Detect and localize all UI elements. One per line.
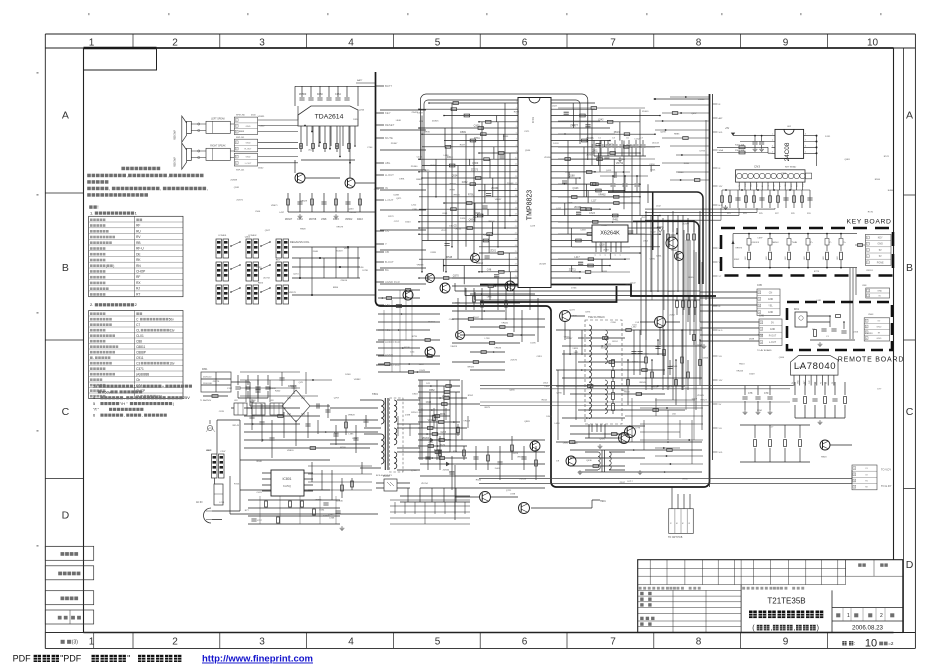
svg-text:,: , xyxy=(160,186,161,191)
svg-text:VR597: VR597 xyxy=(495,199,502,201)
svg-text:10: 10 xyxy=(515,157,517,159)
svg-text:C991: C991 xyxy=(428,442,434,444)
svg-text:Q969: Q969 xyxy=(328,514,334,516)
svg-text:L432: L432 xyxy=(632,327,638,329)
svg-text:L102: L102 xyxy=(656,206,662,208)
svg-text:D543: D543 xyxy=(405,222,411,224)
svg-text:+5V: +5V xyxy=(725,128,730,130)
svg-text:ZD588: ZD588 xyxy=(230,180,237,182)
svg-text:Q536: Q536 xyxy=(525,150,531,152)
svg-text:L814: L814 xyxy=(543,383,549,385)
svg-text:11: 11 xyxy=(515,164,517,166)
svg-text:D193: D193 xyxy=(867,333,873,335)
svg-text:R486: R486 xyxy=(888,190,894,192)
svg-text:L848: L848 xyxy=(396,120,402,122)
svg-text:C504: C504 xyxy=(255,211,261,213)
svg-text:L217: L217 xyxy=(574,256,580,259)
svg-text:R890: R890 xyxy=(333,287,339,289)
svg-text:VR655: VR655 xyxy=(453,194,460,196)
svg-text:P8: P8 xyxy=(832,382,834,384)
svg-text:ZD575: ZD575 xyxy=(510,360,517,362)
svg-text:DEGAUSS COIL: DEGAUSS COIL xyxy=(290,240,310,244)
svg-text:25V: 25V xyxy=(183,395,190,400)
svg-text:P2: P2 xyxy=(768,185,770,187)
svg-text:24C08: 24C08 xyxy=(784,142,791,161)
svg-text:VR671: VR671 xyxy=(271,205,278,207)
svg-text:R355: R355 xyxy=(688,277,694,279)
svg-text:ZD791: ZD791 xyxy=(445,440,452,442)
svg-text:VR462: VR462 xyxy=(598,194,606,197)
svg-text:ZD708: ZD708 xyxy=(309,218,317,221)
svg-text:R571: R571 xyxy=(884,156,890,158)
svg-text:D717: D717 xyxy=(628,481,634,483)
svg-text:26: 26 xyxy=(515,257,517,259)
svg-text:R352: R352 xyxy=(734,259,740,261)
svg-text:C88: C88 xyxy=(136,339,142,343)
svg-text:KEY BOAD: KEY BOAD xyxy=(785,166,797,169)
svg-text:ZD732: ZD732 xyxy=(263,277,270,279)
svg-text:VR973: VR973 xyxy=(735,247,742,249)
svg-text:6: 6 xyxy=(522,37,528,48)
svg-text:H.D: H.D xyxy=(719,330,723,332)
svg-text:NF: NF xyxy=(815,382,817,384)
svg-text:SPKT-N6: SPKT-N6 xyxy=(236,115,246,117)
svg-text:Q263: Q263 xyxy=(348,209,354,211)
svg-text:R109: R109 xyxy=(404,347,410,349)
svg-text:5: 5 xyxy=(93,401,95,406)
svg-text:Q591: Q591 xyxy=(234,187,240,189)
svg-text:IN: IN xyxy=(385,186,388,190)
svg-text:L938: L938 xyxy=(510,493,516,495)
svg-text:VR441: VR441 xyxy=(501,323,508,325)
svg-text:R625: R625 xyxy=(424,170,430,172)
svg-text:R434: R434 xyxy=(542,399,548,401)
svg-text:C888P: C888P xyxy=(136,350,146,354)
svg-text:L-OUT: L-OUT xyxy=(245,163,252,165)
svg-text:8: 8 xyxy=(696,37,702,48)
svg-text:9: 9 xyxy=(783,637,789,648)
svg-text:R-OUT: R-OUT xyxy=(245,149,253,151)
svg-text:D320: D320 xyxy=(460,218,466,220)
svg-text:16v: 16v xyxy=(169,361,175,365)
svg-text:L437: L437 xyxy=(279,212,285,214)
svg-text:C819: C819 xyxy=(537,356,543,358)
svg-text:C207: C207 xyxy=(220,451,226,453)
svg-text:D163: D163 xyxy=(323,515,329,517)
svg-text:ZD860: ZD860 xyxy=(299,93,307,96)
svg-text:D223: D223 xyxy=(513,453,519,455)
svg-text:C617: C617 xyxy=(667,387,673,389)
svg-text:R255: R255 xyxy=(758,335,764,337)
svg-text:D834: D834 xyxy=(632,362,638,364)
svg-text:CL01: CL01 xyxy=(136,334,144,338)
svg-text:"/t ": "/t " xyxy=(93,407,100,412)
svg-text:D933: D933 xyxy=(503,136,509,138)
svg-text:R596: R596 xyxy=(875,179,881,181)
svg-text:GND: GND xyxy=(877,291,882,293)
svg-text:Q252: Q252 xyxy=(449,471,455,473)
svg-text:C431: C431 xyxy=(257,492,263,494)
svg-text:SSP-101: SSP-101 xyxy=(236,137,245,139)
svg-text:4: 4 xyxy=(772,151,773,153)
svg-text:PONE: PONE xyxy=(877,261,884,264)
svg-text:28: 28 xyxy=(515,270,517,272)
svg-text:ZD907: ZD907 xyxy=(391,143,398,145)
svg-text:R548: R548 xyxy=(446,256,452,259)
svg-text:): ) xyxy=(817,625,819,632)
svg-text:3: 3 xyxy=(772,145,773,147)
svg-text:GND: GND xyxy=(770,328,776,331)
svg-text:L542: L542 xyxy=(598,119,604,122)
svg-text:V.D: V.D xyxy=(719,428,723,430)
svg-text:B: B xyxy=(906,262,913,274)
svg-text:R-OUT: R-OUT xyxy=(769,335,777,338)
svg-text:ZD468: ZD468 xyxy=(491,187,499,190)
svg-text:MENU: MENU xyxy=(773,242,779,244)
svg-text:CN8: CN8 xyxy=(862,285,867,287)
svg-text:RB: RB xyxy=(136,241,140,245)
svg-text:6: 6 xyxy=(93,413,95,418)
svg-text:22: 22 xyxy=(515,232,517,234)
svg-text:VR868: VR868 xyxy=(417,264,424,266)
svg-text:Q721: Q721 xyxy=(506,490,512,492)
svg-text:TO H.DY: TO H.DY xyxy=(881,484,892,488)
svg-text:RIGHT SPEAK: RIGHT SPEAK xyxy=(210,145,226,148)
svg-text:ZD302: ZD302 xyxy=(586,155,593,157)
svg-text:C661: C661 xyxy=(442,213,448,215)
svg-text:21: 21 xyxy=(515,226,517,228)
svg-text:P7: P7 xyxy=(826,382,828,384)
svg-text:5V: 5V xyxy=(879,249,882,252)
svg-text:SCL: SCL xyxy=(757,184,759,187)
svg-text:L738: L738 xyxy=(485,338,491,340)
svg-text:ZD421: ZD421 xyxy=(412,112,419,114)
svg-text:L-OUT: L-OUT xyxy=(385,198,394,202)
svg-text:3: 3 xyxy=(516,114,517,116)
svg-text:ZD614: ZD614 xyxy=(341,280,348,282)
svg-text:X6264K: X6264K xyxy=(600,231,620,237)
svg-text:R105 10K: R105 10K xyxy=(735,145,745,147)
svg-text:TMP8823: TMP8823 xyxy=(527,190,534,220)
svg-text:CN3: CN3 xyxy=(754,165,760,169)
svg-text:D209: D209 xyxy=(692,399,698,401)
svg-text:C422: C422 xyxy=(259,125,265,127)
svg-text:GND: GND xyxy=(246,126,251,128)
svg-text:AFT: AFT xyxy=(719,117,724,120)
svg-text:R795: R795 xyxy=(412,336,418,338)
svg-text:T801: T801 xyxy=(372,392,378,396)
svg-text:D343: D343 xyxy=(420,370,426,372)
svg-text:GND: GND xyxy=(246,157,251,159)
svg-text:R908: R908 xyxy=(300,228,306,230)
svg-text:VR533: VR533 xyxy=(455,228,462,230)
svg-text:R885: R885 xyxy=(674,134,680,136)
svg-text:ZD607: ZD607 xyxy=(473,317,480,319)
svg-text:Q188: Q188 xyxy=(569,175,576,178)
svg-text:L117: L117 xyxy=(591,200,597,203)
svg-text:D288: D288 xyxy=(394,195,400,197)
svg-text:GND: GND xyxy=(878,243,884,246)
svg-text:R731: R731 xyxy=(474,137,480,140)
svg-text:18: 18 xyxy=(515,207,517,209)
svg-text:C723: C723 xyxy=(589,212,595,215)
svg-text:VR752: VR752 xyxy=(616,162,624,165)
svg-text:1.: 1. xyxy=(90,211,93,216)
svg-text:D195: D195 xyxy=(530,342,536,344)
svg-text:D: D xyxy=(62,510,70,522)
svg-text:CN5: CN5 xyxy=(757,284,762,287)
svg-text:A: A xyxy=(62,110,69,122)
svg-text:C909: C909 xyxy=(571,316,577,318)
svg-text:VR278: VR278 xyxy=(289,292,296,294)
svg-text:H901: H901 xyxy=(600,500,606,503)
svg-text:R123: R123 xyxy=(333,218,339,221)
svg-text:C697: C697 xyxy=(757,238,763,240)
svg-text:ZD668: ZD668 xyxy=(350,212,357,214)
svg-text:C152: C152 xyxy=(634,139,640,141)
svg-text:Q413: Q413 xyxy=(606,170,612,172)
svg-text:(A)88888: (A)88888 xyxy=(136,372,149,376)
svg-text:R775: R775 xyxy=(814,271,820,273)
svg-text:VR35: VR35 xyxy=(424,132,430,134)
svg-text:17: 17 xyxy=(515,201,517,203)
svg-text:Q534: Q534 xyxy=(452,175,459,178)
svg-text:Q983: Q983 xyxy=(524,421,530,423)
svg-text:T902 FLYBACK: T902 FLYBACK xyxy=(588,316,605,319)
svg-text:CON801: CON801 xyxy=(218,235,227,237)
svg-text:R460: R460 xyxy=(275,391,281,393)
svg-text:R998: R998 xyxy=(450,189,456,191)
svg-text:D367: D367 xyxy=(630,145,636,147)
svg-text:Q293: Q293 xyxy=(660,132,666,134)
svg-text:Q710: Q710 xyxy=(411,470,417,472)
svg-text:VR280: VR280 xyxy=(797,367,804,369)
svg-text:10: 10 xyxy=(867,37,879,48)
svg-text:L598: L598 xyxy=(321,218,327,221)
svg-text:7: 7 xyxy=(610,637,616,648)
svg-text:VR410: VR410 xyxy=(476,262,484,265)
svg-text:L228: L228 xyxy=(530,226,536,228)
svg-text:4: 4 xyxy=(348,637,354,648)
svg-text:AUDIO IN-R: AUDIO IN-R xyxy=(385,340,400,344)
svg-text:R889: R889 xyxy=(416,179,422,181)
svg-text:A: A xyxy=(906,110,913,122)
svg-text:2: 2 xyxy=(880,613,883,619)
svg-text:5: 5 xyxy=(516,126,517,128)
svg-text:VR527: VR527 xyxy=(700,400,707,402)
svg-text:L868: L868 xyxy=(329,518,335,520)
svg-text:10: 10 xyxy=(865,638,877,650)
svg-text:L-OUT: L-OUT xyxy=(769,341,777,344)
svg-text:H.D: H.D xyxy=(719,205,723,207)
svg-text:KA5Q: KA5Q xyxy=(283,484,292,488)
svg-text:6: 6 xyxy=(522,637,528,648)
svg-text:VR86: VR86 xyxy=(682,478,688,480)
svg-text:C48: C48 xyxy=(487,269,492,272)
svg-text:Q757: Q757 xyxy=(334,398,340,400)
svg-text:C943: C943 xyxy=(703,358,709,360)
svg-text:12V: 12V xyxy=(719,380,723,382)
svg-text:RT: RT xyxy=(136,293,140,297)
svg-text:ZD174: ZD174 xyxy=(428,322,435,324)
svg-text:24: 24 xyxy=(515,245,517,247)
svg-text:RF: RF xyxy=(136,224,140,228)
svg-text:8Ω/3W: 8Ω/3W xyxy=(173,157,177,166)
svg-text:ZD685: ZD685 xyxy=(697,395,704,397)
svg-text:ZD162: ZD162 xyxy=(442,396,450,398)
svg-text:DE: DE xyxy=(136,252,140,256)
svg-text:C8811: C8811 xyxy=(136,345,145,349)
svg-text:1/8w: 1/8w xyxy=(134,384,142,389)
svg-text:Q790: Q790 xyxy=(556,393,562,395)
svg-text:12V: 12V xyxy=(719,186,723,188)
svg-text:PDF: PDF xyxy=(13,654,32,664)
svg-text:CN: CN xyxy=(769,291,773,294)
svg-text:R209: R209 xyxy=(340,447,346,449)
svg-text:L432: L432 xyxy=(556,208,562,210)
svg-text:R197: R197 xyxy=(334,433,340,435)
svg-text:VR143: VR143 xyxy=(232,425,239,427)
svg-text:R458: R458 xyxy=(514,112,520,114)
svg-text:L202: L202 xyxy=(411,205,417,207)
svg-text:C873: C873 xyxy=(585,312,591,314)
svg-text:R106 10K: R106 10K xyxy=(735,150,745,152)
svg-text:L378: L378 xyxy=(418,412,424,414)
svg-text:7: 7 xyxy=(610,37,616,48)
svg-text:D801-4: D801-4 xyxy=(288,385,297,388)
svg-text:CN03: CN03 xyxy=(868,314,874,316)
svg-text:D843: D843 xyxy=(412,393,418,395)
svg-text:,: , xyxy=(168,173,169,178)
svg-text:AGND IN-R: AGND IN-R xyxy=(385,280,400,284)
svg-text:RN: RN xyxy=(136,264,141,268)
svg-text:CS: CS xyxy=(385,229,389,233)
svg-text:VR243: VR243 xyxy=(736,371,743,373)
svg-text:Q827: Q827 xyxy=(474,212,481,215)
svg-text:27: 27 xyxy=(515,264,517,266)
svg-text:R140: R140 xyxy=(678,172,684,174)
svg-text:-: - xyxy=(93,356,94,360)
svg-text:KEY: KEY xyxy=(385,111,391,115)
svg-text:L779: L779 xyxy=(635,428,641,430)
svg-text:VR628: VR628 xyxy=(300,200,307,202)
svg-text:8: 8 xyxy=(696,637,702,648)
svg-text:ZD818: ZD818 xyxy=(544,157,551,159)
svg-text:2: 2 xyxy=(516,107,517,109)
svg-text:D248: D248 xyxy=(345,374,351,376)
svg-text:8Ω/3W: 8Ω/3W xyxy=(173,130,177,139)
svg-text:2: 2 xyxy=(172,637,178,648)
svg-text:D639: D639 xyxy=(749,339,755,341)
svg-text:C215: C215 xyxy=(441,432,447,434)
svg-text:G: G xyxy=(670,522,672,524)
svg-text:R437: R437 xyxy=(460,145,466,147)
svg-text:Q922: Q922 xyxy=(650,231,656,233)
svg-text:Q302: Q302 xyxy=(245,236,251,238)
svg-text:4: 4 xyxy=(516,120,517,122)
svg-text:ZD328: ZD328 xyxy=(539,264,546,266)
svg-text:R673: R673 xyxy=(624,392,630,394)
svg-text:8: 8 xyxy=(805,134,806,136)
svg-text:R340: R340 xyxy=(257,461,263,463)
svg-text:H-OUT: H-OUT xyxy=(385,173,394,177)
svg-text:C600: C600 xyxy=(608,144,614,147)
svg-text:C267: C267 xyxy=(419,364,425,366)
svg-text:63v: 63v xyxy=(169,328,175,332)
svg-text:D198: D198 xyxy=(405,414,411,416)
svg-text:D719: D719 xyxy=(597,156,603,159)
svg-text:CHOP: CHOP xyxy=(136,270,145,274)
svg-text:D316: D316 xyxy=(853,332,859,334)
svg-text:L487: L487 xyxy=(206,450,212,452)
svg-text:TO CRT PCB: TO CRT PCB xyxy=(668,536,683,539)
svg-text:R879: R879 xyxy=(485,407,491,409)
svg-text:TDA2614: TDA2614 xyxy=(315,114,344,121)
svg-text:R491: R491 xyxy=(613,219,619,222)
svg-text:,: , xyxy=(207,186,208,191)
svg-text:C870: C870 xyxy=(219,411,225,413)
svg-text:15: 15 xyxy=(515,189,517,191)
svg-text:VR888: VR888 xyxy=(269,388,276,390)
svg-text:Q527: Q527 xyxy=(265,230,271,232)
svg-text:,: , xyxy=(770,625,772,632)
svg-text:V.D: V.D xyxy=(719,356,723,358)
svg-text:R450: R450 xyxy=(317,93,323,96)
svg-text:R690: R690 xyxy=(672,250,678,252)
svg-text:,: , xyxy=(142,413,143,418)
svg-text:,: , xyxy=(794,625,796,632)
svg-text:Q272: Q272 xyxy=(570,310,576,312)
svg-text:VR12: VR12 xyxy=(621,390,627,392)
svg-text:D771: D771 xyxy=(698,345,704,347)
svg-text:D991: D991 xyxy=(399,179,405,181)
svg-text:IR01: IR01 xyxy=(794,308,800,311)
svg-text:23: 23 xyxy=(515,239,517,241)
svg-text:B: B xyxy=(62,262,69,274)
svg-text:R124: R124 xyxy=(612,341,618,343)
svg-text:ZD148: ZD148 xyxy=(520,478,527,480)
svg-text:D920: D920 xyxy=(353,119,359,121)
svg-text:C371: C371 xyxy=(524,131,530,133)
svg-text:http://www.fineprint.com: http://www.fineprint.com xyxy=(202,654,313,665)
svg-text:R791: R791 xyxy=(468,194,474,197)
svg-text:2: 2 xyxy=(172,37,178,48)
svg-text:Y: Y xyxy=(385,242,387,246)
svg-text:R443: R443 xyxy=(357,218,363,221)
svg-text:19: 19 xyxy=(515,214,517,216)
svg-text:R723: R723 xyxy=(234,483,240,485)
svg-text:3: 3 xyxy=(259,637,265,648)
svg-text:Q590: Q590 xyxy=(650,259,656,261)
svg-text:D307: D307 xyxy=(473,217,479,219)
svg-text:1: 1 xyxy=(772,134,773,136)
svg-text:MUTE: MUTE xyxy=(385,136,393,140)
svg-text:2.: 2. xyxy=(90,302,93,307)
svg-text:C704: C704 xyxy=(367,147,373,149)
svg-text:ZD21: ZD21 xyxy=(490,250,497,253)
svg-text:C: C xyxy=(62,406,70,418)
svg-text:L288: L288 xyxy=(412,209,418,211)
svg-text:C150: C150 xyxy=(643,354,649,356)
svg-text:LEFT SPEAK: LEFT SPEAK xyxy=(211,118,225,121)
svg-text:C615: C615 xyxy=(426,402,432,404)
svg-text:7: 7 xyxy=(805,140,806,142)
svg-text:Q369: Q369 xyxy=(472,162,479,165)
svg-text:L964: L964 xyxy=(643,241,649,243)
svg-text:ZD548: ZD548 xyxy=(507,183,514,185)
svg-text:C119: C119 xyxy=(374,189,380,191)
svg-text:P6: P6 xyxy=(821,382,823,384)
